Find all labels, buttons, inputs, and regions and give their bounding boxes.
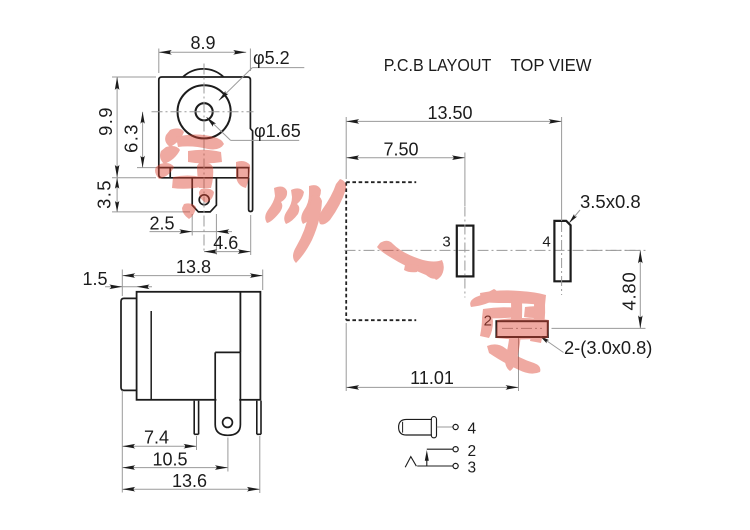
svg-text:13.50: 13.50 [427, 103, 472, 123]
svg-text:φ5.2: φ5.2 [253, 48, 290, 68]
svg-text:φ1.65: φ1.65 [254, 121, 301, 141]
svg-text:2: 2 [468, 443, 477, 460]
svg-text:4: 4 [542, 234, 550, 251]
svg-text:9.9: 9.9 [95, 106, 116, 136]
svg-text:8.9: 8.9 [190, 33, 215, 53]
svg-text:2.5: 2.5 [149, 213, 174, 233]
svg-text:4.6: 4.6 [213, 233, 238, 253]
svg-text:TOP VIEW: TOP VIEW [511, 55, 593, 75]
svg-text:4: 4 [468, 421, 477, 438]
svg-text:3: 3 [468, 460, 477, 477]
svg-text:3.5x0.8: 3.5x0.8 [580, 191, 641, 212]
svg-text:P.C.B LAYOUT: P.C.B LAYOUT [384, 55, 492, 75]
svg-text:13.8: 13.8 [176, 257, 211, 277]
svg-text:6.3: 6.3 [121, 123, 142, 153]
svg-text:13.6: 13.6 [172, 471, 207, 491]
svg-text:2-(3.0x0.8): 2-(3.0x0.8) [564, 337, 652, 358]
svg-text:7.50: 7.50 [383, 140, 418, 160]
svg-text:7.4: 7.4 [144, 428, 169, 448]
svg-text:1.5: 1.5 [82, 269, 107, 289]
svg-text:11.01: 11.01 [410, 368, 454, 388]
svg-text:3: 3 [442, 234, 450, 251]
svg-text:3.5: 3.5 [94, 179, 115, 209]
svg-text:10.5: 10.5 [152, 449, 187, 469]
svg-text:4.80: 4.80 [619, 272, 640, 311]
